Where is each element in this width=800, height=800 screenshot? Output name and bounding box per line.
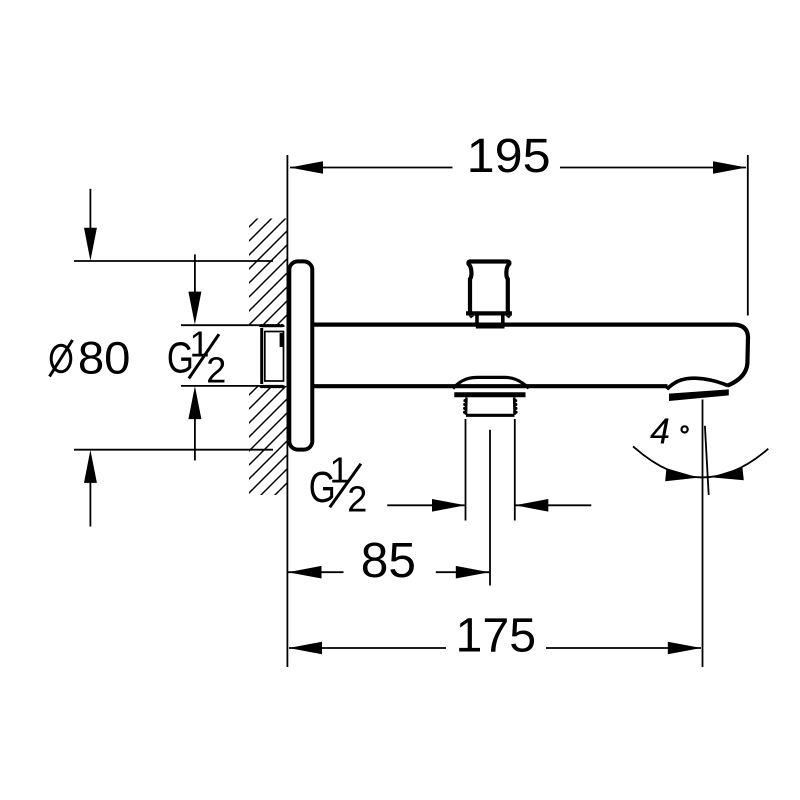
wall hatch lower: [249, 386, 287, 495]
dim 195 line right segment: [560, 167, 746, 169]
dim 85 line left segment: [288, 571, 344, 573]
angle 4deg tilted line: [705, 426, 709, 495]
dim 195 arrow left: [290, 161, 323, 174]
diverter knob base line: [466, 311, 512, 315]
extension line G12 wall bottom: [181, 385, 273, 387]
svg-text:85: 85: [361, 534, 416, 588]
degree symbol: [682, 426, 688, 432]
threaded wall inlet detail bar: [280, 333, 284, 347]
knob knurl tick left: [469, 316, 475, 319]
spout body bottom edge: [313, 384, 668, 388]
dim 175 line right segment: [546, 647, 701, 649]
dim 175 right extension line: [702, 400, 704, 668]
svg-text:2: 2: [206, 350, 226, 391]
svg-text:2: 2: [347, 478, 367, 519]
G12 wall text: [167, 323, 226, 390]
dim 195 right extension line: [747, 155, 749, 316]
diverter stem base: [476, 323, 505, 329]
extension line G12 wall top: [181, 324, 273, 326]
spout body top edge: [313, 325, 748, 386]
wall hatch upper: [249, 219, 287, 326]
extension line dia80 top: [74, 260, 273, 262]
threaded wall inlet outer: [260, 325, 283, 387]
dim 175 arrow left: [289, 642, 322, 655]
angle arc: [633, 446, 768, 477]
dim 85 arrow right: [456, 566, 490, 579]
diverter stem right: [501, 316, 505, 324]
G12 outlet dim line left: [387, 504, 464, 506]
escutcheon flange: [289, 261, 312, 449]
hand shower boss base: [454, 392, 525, 397]
G12 outlet arrow left: [432, 499, 465, 512]
hand shower nipple bottom: [466, 414, 515, 417]
svg-text:195: 195: [467, 130, 551, 183]
svg-text:175: 175: [456, 609, 537, 662]
spout outlet mouth: [669, 389, 729, 401]
G12 wall arrow top: [188, 292, 201, 325]
G12 outlet arrow right: [515, 499, 548, 512]
diverter knob outline: [468, 262, 509, 314]
angle arc arrow right: [710, 467, 744, 480]
G12 outlet extension right: [514, 419, 516, 521]
dia80 arrow top: [84, 228, 97, 261]
dia80 text: [50, 332, 131, 383]
dim 85 line right segment: [436, 571, 489, 573]
dim 85 arrow left: [288, 566, 322, 579]
diverter stem left: [475, 316, 479, 324]
G12 outlet extension left: [465, 419, 467, 521]
angle arc arrow left: [665, 468, 699, 481]
hand shower boss dome: [453, 377, 529, 388]
G12 outlet text: [309, 450, 368, 520]
dim 195 arrow right: [713, 161, 746, 174]
hand shower nipple thread right: [513, 398, 516, 415]
outlet centerline: [489, 430, 491, 586]
dim 175 arrow right: [668, 642, 701, 655]
spout outlet dome: [667, 378, 728, 389]
dim 195 line left segment: [290, 167, 453, 169]
G12 outlet dim line right: [516, 504, 592, 506]
svg-text:4: 4: [650, 410, 670, 451]
wall face / left extension line: [286, 155, 288, 667]
dim 175 line left segment: [289, 647, 446, 649]
G12 wall arrow bottom: [188, 386, 201, 419]
threaded wall inlet inner outline: [265, 332, 284, 382]
extension line dia80 bottom: [74, 449, 273, 451]
svg-text:80: 80: [78, 332, 131, 383]
hand shower nipple thread left: [465, 398, 468, 415]
dia80 arrow bottom: [84, 450, 97, 483]
knob knurl tick right: [505, 316, 511, 319]
